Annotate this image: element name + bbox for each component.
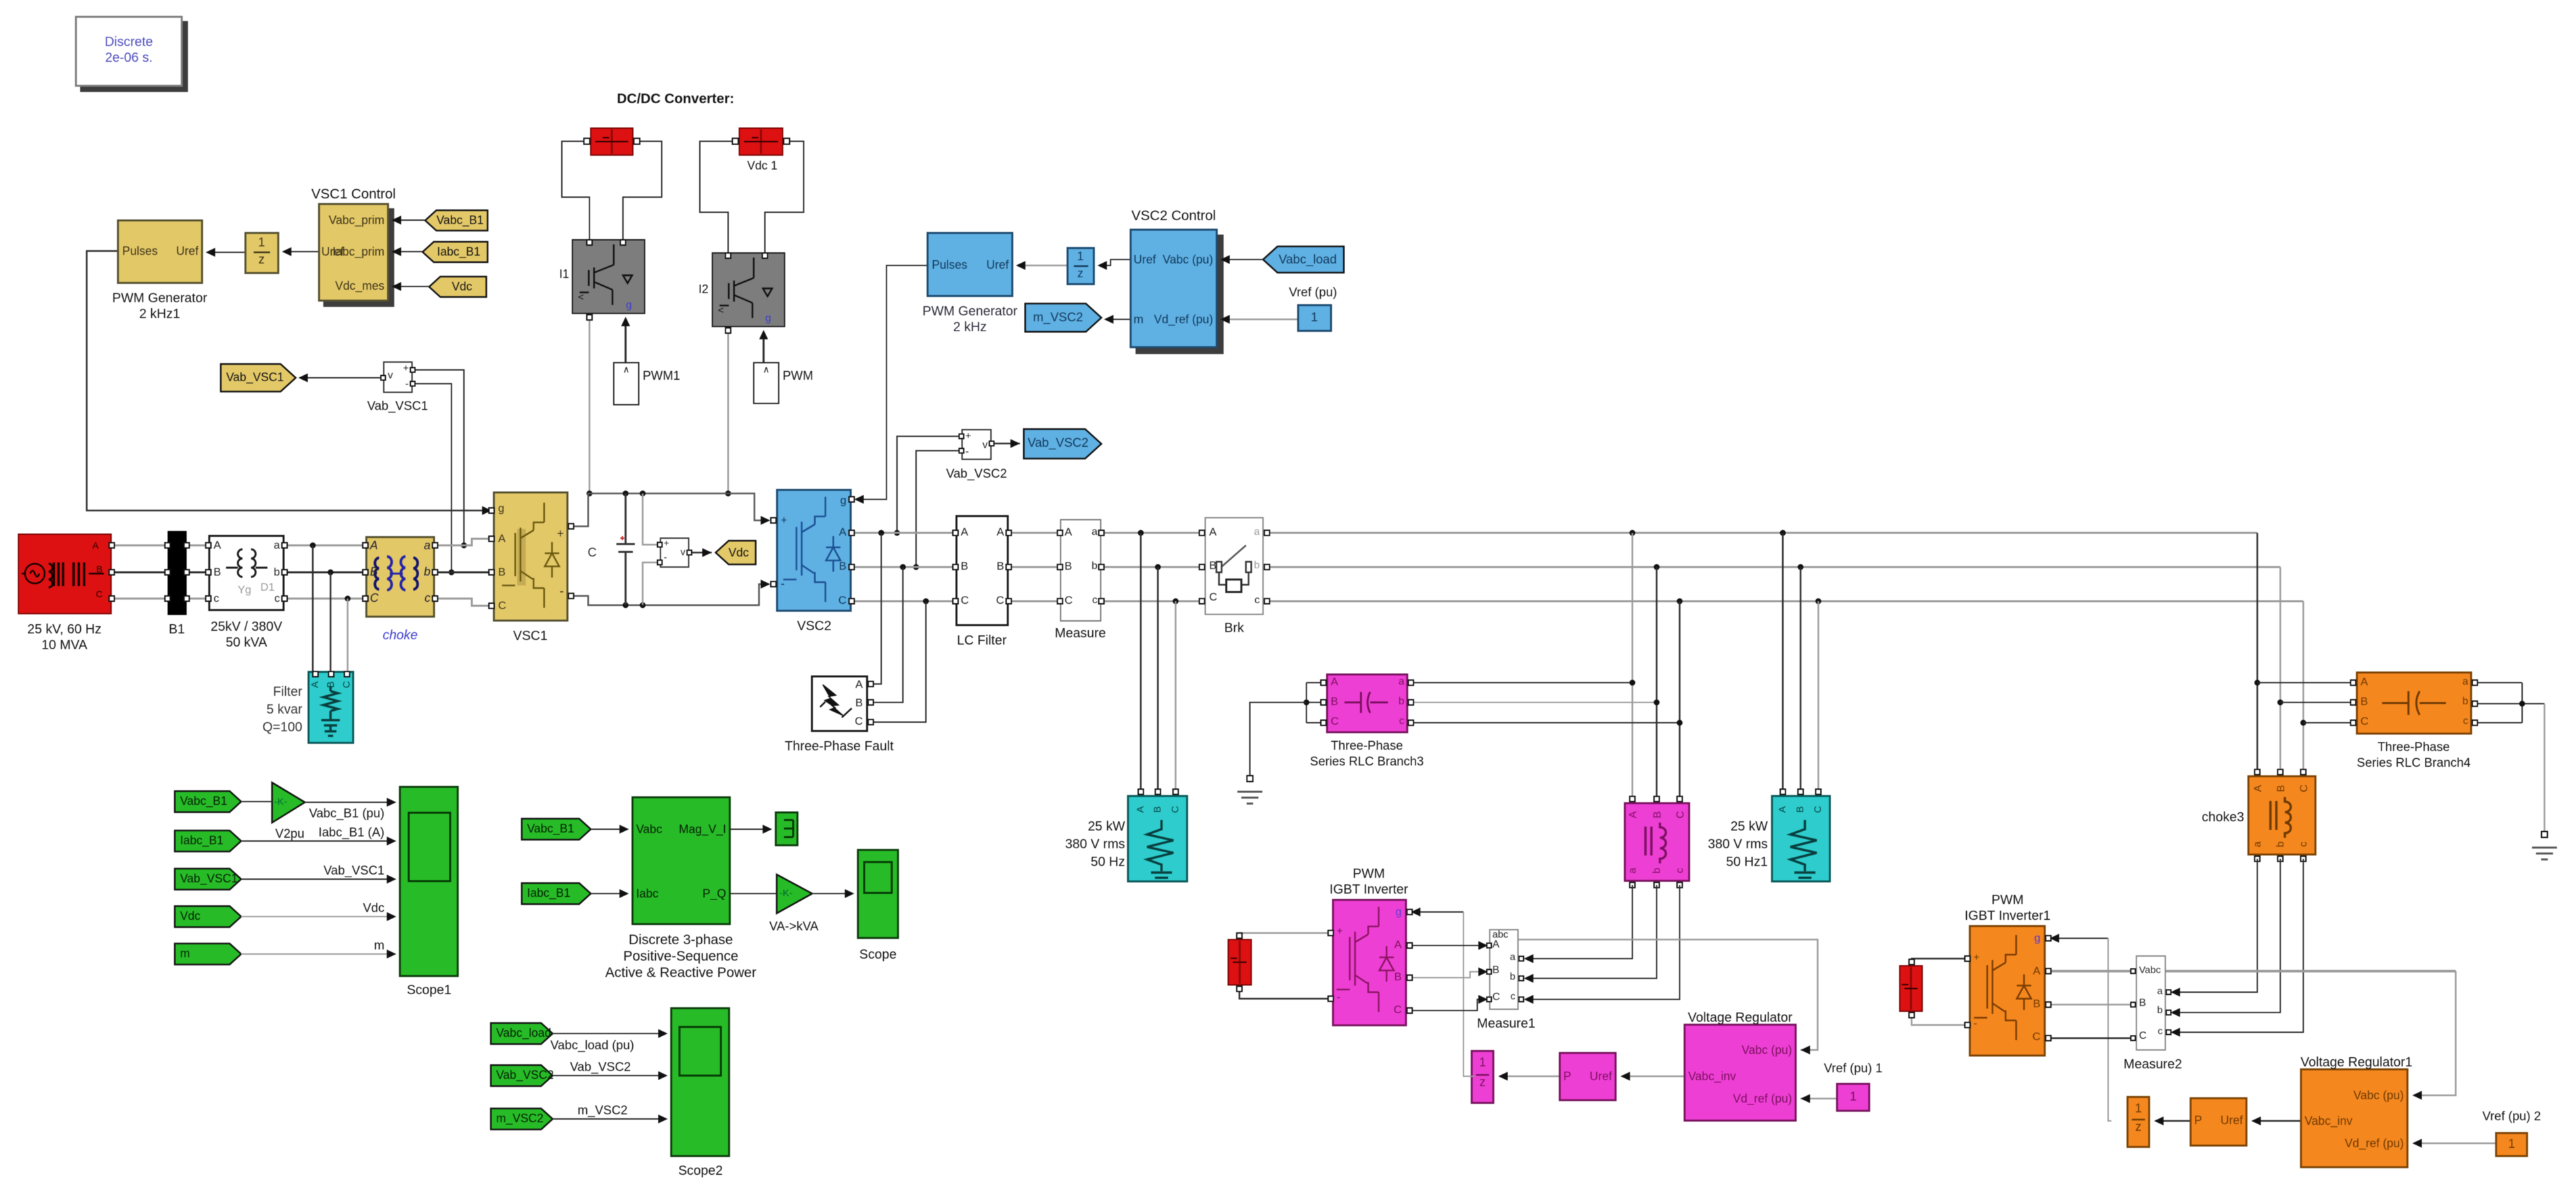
svg-text:A: A	[1628, 811, 1639, 818]
svg-text:C: C	[341, 681, 352, 688]
svg-text:B: B	[2276, 785, 2287, 792]
svg-text:A: A	[1135, 806, 1146, 813]
svg-text:A: A	[2253, 785, 2264, 792]
svg-text:C: C	[2299, 785, 2310, 792]
svg-text:a: a	[2252, 841, 2263, 847]
svg-text:C: C	[1812, 806, 1824, 813]
svg-text:c: c	[2298, 842, 2309, 847]
svg-text:A: A	[1777, 806, 1788, 813]
svg-text:C: C	[1170, 806, 1181, 813]
svg-text:B: B	[1652, 811, 1663, 819]
svg-text:A: A	[310, 681, 321, 688]
svg-text:B: B	[1795, 806, 1806, 813]
svg-text:B: B	[1152, 806, 1163, 813]
svg-text:b: b	[2275, 841, 2286, 847]
